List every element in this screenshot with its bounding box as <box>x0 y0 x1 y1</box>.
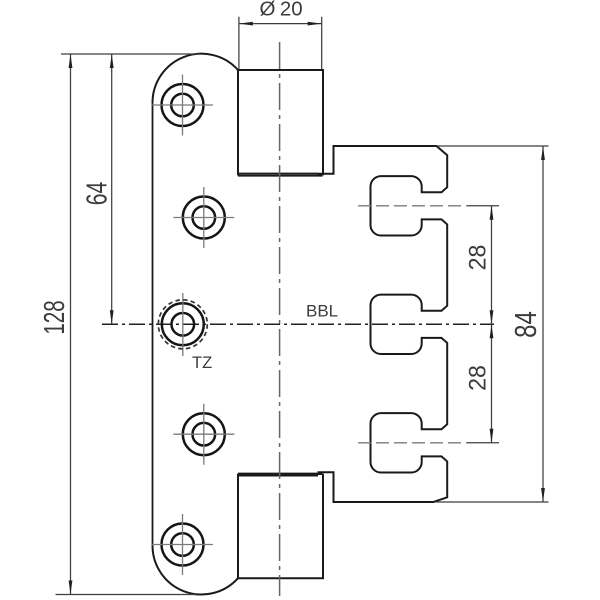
BBL center line horizontal dash-dot <box>102 323 494 325</box>
dimension 28 upper arrows <box>490 206 494 324</box>
dimension 128 extension bottom <box>56 594 197 596</box>
dimension 84 extension bottom <box>436 501 549 503</box>
svg-text:BBL: BBL <box>306 302 338 321</box>
dimension 28 lower extension <box>467 442 499 444</box>
dimension 128 line <box>70 54 72 595</box>
svg-text:84: 84 <box>508 311 543 338</box>
knuckle bottom top edge <box>238 473 323 475</box>
labels layer <box>39 0 543 391</box>
TZ dashed circle <box>158 300 207 349</box>
knuckle bottom cylinder <box>238 474 323 578</box>
screw hole 2 crosshair <box>173 187 234 248</box>
screw hole 4 <box>183 413 225 455</box>
slot 1 center dashed line <box>358 205 467 207</box>
svg-text:28: 28 <box>464 245 492 271</box>
screw hole 3 TZ <box>162 303 204 345</box>
dimension 28 upper extension <box>467 205 499 207</box>
svg-text:28: 28 <box>464 365 492 391</box>
screw hole 1 <box>162 84 204 126</box>
screw hole 5 crosshair <box>152 514 213 575</box>
screw hole 2 <box>183 197 225 239</box>
hinge leaf plate left edge <box>152 103 154 546</box>
dimension 28 lower line <box>491 324 493 443</box>
svg-text:128: 128 <box>39 300 71 334</box>
knuckle top bottom edge <box>238 174 323 176</box>
screw hole 1 crosshair <box>152 75 213 136</box>
dimension 84 arrows <box>541 146 545 502</box>
dimension 28 upper line <box>491 206 493 324</box>
screw hole 3 crosshair vertical <box>182 293 184 356</box>
dimension diameter 20 extension lines <box>239 17 322 69</box>
dimension diameter 20 arrows <box>239 22 322 26</box>
hinge leaf plate bottom arc <box>153 546 239 595</box>
dimension 84 line <box>542 146 544 502</box>
dimension 28 lower arrows <box>490 324 494 443</box>
frame part outline with three C-slots <box>318 146 448 502</box>
slot 3 center dashed line <box>358 442 467 444</box>
dimension 128 extension top <box>61 53 200 55</box>
svg-text:64: 64 <box>81 182 113 206</box>
screw hole 4 crosshair <box>173 404 234 465</box>
hinge leaf plate top arc <box>153 54 239 103</box>
knuckle bottom inner lip line <box>239 475 318 477</box>
svg-text:TZ: TZ <box>192 354 212 372</box>
dimension diameter 20 line <box>239 23 322 25</box>
screw hole 5 <box>162 524 204 566</box>
knuckle top cylinder <box>238 70 323 175</box>
dimension 64 arrows <box>110 54 114 324</box>
knuckle top inner lip line <box>239 172 318 174</box>
dimension 64 line <box>111 54 113 324</box>
hinge axis center line vertical <box>279 42 281 596</box>
dimension 84 extension top <box>437 145 549 147</box>
svg-text:20: 20 <box>280 0 303 21</box>
svg-text:Ø: Ø <box>260 0 276 21</box>
dimension 128 arrows <box>69 54 73 595</box>
